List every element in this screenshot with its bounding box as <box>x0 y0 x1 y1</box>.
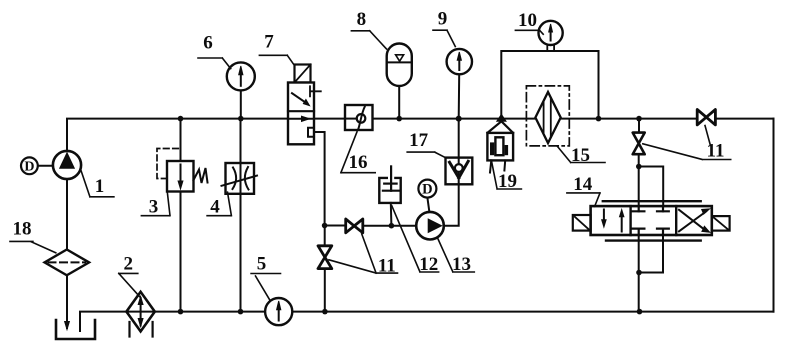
valve 14 proportional line above <box>603 200 701 202</box>
wire bus to shutoff valve 11d <box>638 119 640 133</box>
label 16 <box>341 132 375 173</box>
plunger vessel 12 <box>379 166 400 203</box>
wire accumulator 8 stem <box>398 86 400 119</box>
wire bus to valve 4 <box>240 119 242 163</box>
motor D of pump 13 <box>418 180 436 198</box>
valve 14 proportional line below <box>606 239 701 241</box>
wire junction to shutoff valve 11a <box>325 225 346 227</box>
shutoff valve 11a horizontal <box>346 219 363 233</box>
tank <box>56 320 95 339</box>
wire valve 11d to junction <box>638 154 640 166</box>
relief valve 3 <box>157 149 208 192</box>
throttle valve 4 <box>222 163 258 194</box>
wire pump outlet riser <box>66 179 68 250</box>
wire valve 7 outlet down <box>314 132 325 226</box>
svg-text:18: 18 <box>13 219 32 240</box>
svg-text:5: 5 <box>257 254 267 275</box>
junction dot bottom bus at valve 4 line <box>238 309 244 315</box>
wire top bus left segment <box>67 119 288 151</box>
pump 1 <box>53 151 81 179</box>
check valve 17 <box>446 158 473 185</box>
label 15 <box>558 145 605 166</box>
solenoid of valve 7 <box>295 65 311 83</box>
wire valve 11b to bottom bus <box>324 269 326 312</box>
junction dot bottom bus at valve 3 line <box>178 309 184 315</box>
junction dot at valve 3 riser <box>178 116 184 122</box>
svg-text:7: 7 <box>264 32 274 53</box>
junction dot bottom bus at valve 14 <box>637 309 643 315</box>
wire top bus far right segment <box>716 118 774 120</box>
label 19 <box>492 162 522 193</box>
directional valve 14 body <box>591 206 712 235</box>
wire cross junction to valve 17 <box>458 119 460 158</box>
wire gauge 6 stem <box>240 90 242 118</box>
filter 15 <box>535 92 560 143</box>
shutoff valve 11c horizontal top right <box>697 110 715 125</box>
valve 14 right position crossed arrows <box>679 209 710 232</box>
wire branch to valve 14 top port B <box>639 167 664 212</box>
motor D of pump 1 <box>21 157 38 174</box>
pressure gauge 10 <box>539 21 563 45</box>
svg-text:D: D <box>422 182 432 198</box>
wire top bus middle segment <box>314 118 345 120</box>
wire gauge 9 stem <box>458 74 461 118</box>
label 2 <box>119 254 140 297</box>
label 4 <box>207 192 231 217</box>
label 18 <box>10 219 56 253</box>
wire gauge 10 neck <box>547 44 554 51</box>
pressure gauge 9 <box>447 49 472 74</box>
accumulator 8 <box>387 44 412 87</box>
junction dot at gauge 6 <box>238 116 244 122</box>
wire pump 13 to riser <box>444 184 459 225</box>
directional valve 7 <box>288 83 321 145</box>
wire motor D to pump 1 <box>38 165 53 167</box>
label 12 <box>392 206 439 275</box>
svg-text:6: 6 <box>203 33 213 54</box>
junction dot valve 7 outlet <box>322 223 328 229</box>
label 6 <box>198 33 231 69</box>
wire bottom bus <box>80 312 774 331</box>
wire gauge 10 bypass loop <box>501 51 598 119</box>
label 1 <box>81 170 114 197</box>
label 7 <box>259 32 294 65</box>
pump 13 <box>416 212 444 240</box>
filter 15 dashed enclosure <box>526 86 569 146</box>
junction dot vessel 12 branch <box>389 223 395 229</box>
wire valve 11a to pump 13 <box>363 225 416 227</box>
valve 14 right actuator cap <box>712 216 730 231</box>
wire filter18 to tank with arrowhead <box>65 275 70 330</box>
label 11 bottom <box>329 234 398 277</box>
label 13 <box>437 238 474 275</box>
wire valve 14 bottom port A to bottom bus <box>638 229 640 312</box>
shutoff valve 11d vertical above valve 14 <box>633 133 645 155</box>
wire top bus right segment <box>373 118 698 120</box>
svg-text:2: 2 <box>124 254 134 275</box>
junction dot at gauge 9 cross <box>456 116 462 122</box>
wire vessel 12 stem <box>390 203 393 226</box>
junction dot at loop right <box>596 116 602 122</box>
valve 14 left actuator cap <box>573 215 591 231</box>
junction dot at accumulator stem <box>396 116 402 122</box>
svg-text:4: 4 <box>210 197 220 218</box>
pressure switch 19 <box>487 114 513 172</box>
junction dot below valve 14 <box>636 270 642 276</box>
label 8 <box>351 9 386 49</box>
junction dot at valve 11d riser <box>636 116 642 122</box>
label 10 <box>515 10 543 34</box>
pressure gauge 6 <box>227 62 255 90</box>
wire valve 14 bottom port B loop <box>639 229 663 273</box>
label 14 <box>567 174 600 207</box>
wire right edge vertical <box>773 119 775 312</box>
svg-text:16: 16 <box>349 152 368 173</box>
valve 14 centre position blocked ports <box>633 206 669 235</box>
label 9 <box>433 9 455 47</box>
svg-text:10: 10 <box>518 10 537 31</box>
svg-text:9: 9 <box>438 9 448 30</box>
label 3 <box>141 192 170 218</box>
svg-text:1: 1 <box>95 176 105 197</box>
junction dot bottom bus at valve 11b <box>322 309 328 315</box>
check valve 16 <box>345 105 373 130</box>
wire valve 4 to bottom bus <box>240 194 242 312</box>
shutoff valve 11b vertical <box>318 246 332 269</box>
svg-text:14: 14 <box>573 174 593 195</box>
wire junction to shutoff valve 11b <box>324 226 326 246</box>
filter 2 <box>126 292 154 337</box>
svg-text:8: 8 <box>357 9 367 30</box>
svg-text:D: D <box>24 160 34 175</box>
pressure gauge 5 <box>265 298 292 325</box>
label 17 <box>407 130 446 158</box>
wire valve 3 to bottom bus <box>180 192 182 312</box>
wire motor D to pump 13 <box>427 198 429 213</box>
wire junction to valve 14 top port A <box>638 167 640 212</box>
valve 14 left position arrows <box>602 210 624 232</box>
junction dot above valve 14 <box>636 164 642 170</box>
svg-text:3: 3 <box>149 197 159 218</box>
wire bus to valve 3 <box>180 119 182 161</box>
label 11 top right <box>643 126 731 162</box>
svg-text:17: 17 <box>409 130 429 151</box>
filter 18 <box>45 250 90 276</box>
label 5 <box>251 254 280 300</box>
